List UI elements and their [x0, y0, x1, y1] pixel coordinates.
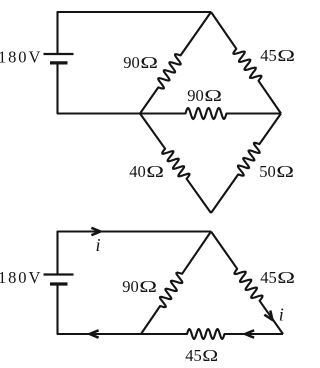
label 50ohm for R5 [259, 162, 294, 181]
wire B1 positive terminal to top apex node [58, 12, 212, 53]
svg-text:45: 45 [260, 268, 277, 287]
current arrow leftward on bottom wire left segment [90, 330, 99, 337]
svg-text:Ω: Ω [277, 47, 295, 65]
battery B1 180V positive plate [44, 53, 74, 55]
resistor R3 90ohm between left node and right node [140, 108, 281, 119]
label 40ohm for R4 [129, 162, 164, 181]
wire B2 negative terminal to bottom-left node [58, 285, 142, 334]
resistor R6 90ohm between apex and bottom-left node [141, 232, 211, 335]
resistor R5 50ohm between right node and bottom apex [211, 114, 281, 214]
battery B2 180V positive plate [44, 273, 74, 275]
resistor R4 40ohm between left node and bottom apex [140, 114, 211, 214]
svg-text:90: 90 [123, 53, 140, 72]
svg-text:Ω: Ω [202, 347, 218, 365]
svg-text:Ω: Ω [204, 87, 222, 105]
label 90ohm for R3 [187, 86, 222, 105]
svg-text:180V: 180V [0, 48, 42, 67]
resistor R7 45ohm between apex and bottom-right corner [211, 232, 283, 335]
current arrow leftward on bottom wire right segment [245, 330, 254, 337]
battery B2 180V negative plate [50, 282, 68, 285]
wire B1 negative terminal to left node [58, 64, 141, 113]
svg-text:50: 50 [259, 162, 276, 181]
current arrow i down-right on R7 branch [264, 311, 272, 321]
svg-text:90: 90 [122, 277, 139, 296]
resistor R8 45ohm on bottom wire [141, 329, 283, 339]
svg-text:90: 90 [187, 86, 204, 105]
svg-text:Ω: Ω [139, 278, 157, 296]
label 90ohm for R6 [122, 277, 157, 296]
svg-text:Ω: Ω [140, 54, 158, 72]
label 45ohm for R7 [260, 268, 295, 287]
current arrow i rightward on top wire [91, 228, 100, 235]
svg-text:180V: 180V [0, 268, 42, 287]
svg-text:40: 40 [129, 162, 146, 181]
battery B1 180V negative plate [50, 61, 68, 64]
wire B2 positive terminal to apex node [58, 232, 212, 274]
svg-text:Ω: Ω [146, 163, 164, 181]
label 45ohm for R8 [185, 346, 218, 365]
svg-text:i: i [279, 304, 284, 324]
svg-text:45: 45 [185, 346, 202, 365]
svg-text:Ω: Ω [276, 163, 294, 181]
svg-text:45: 45 [260, 46, 277, 65]
svg-text:i: i [95, 235, 100, 255]
resistor R1 90ohm between top apex and left node [140, 12, 211, 114]
svg-text:Ω: Ω [277, 269, 295, 287]
label 90ohm for R1 [123, 53, 158, 72]
label 45ohm for R2 [260, 46, 295, 65]
resistor R2 45ohm between top apex and right node [211, 12, 281, 114]
